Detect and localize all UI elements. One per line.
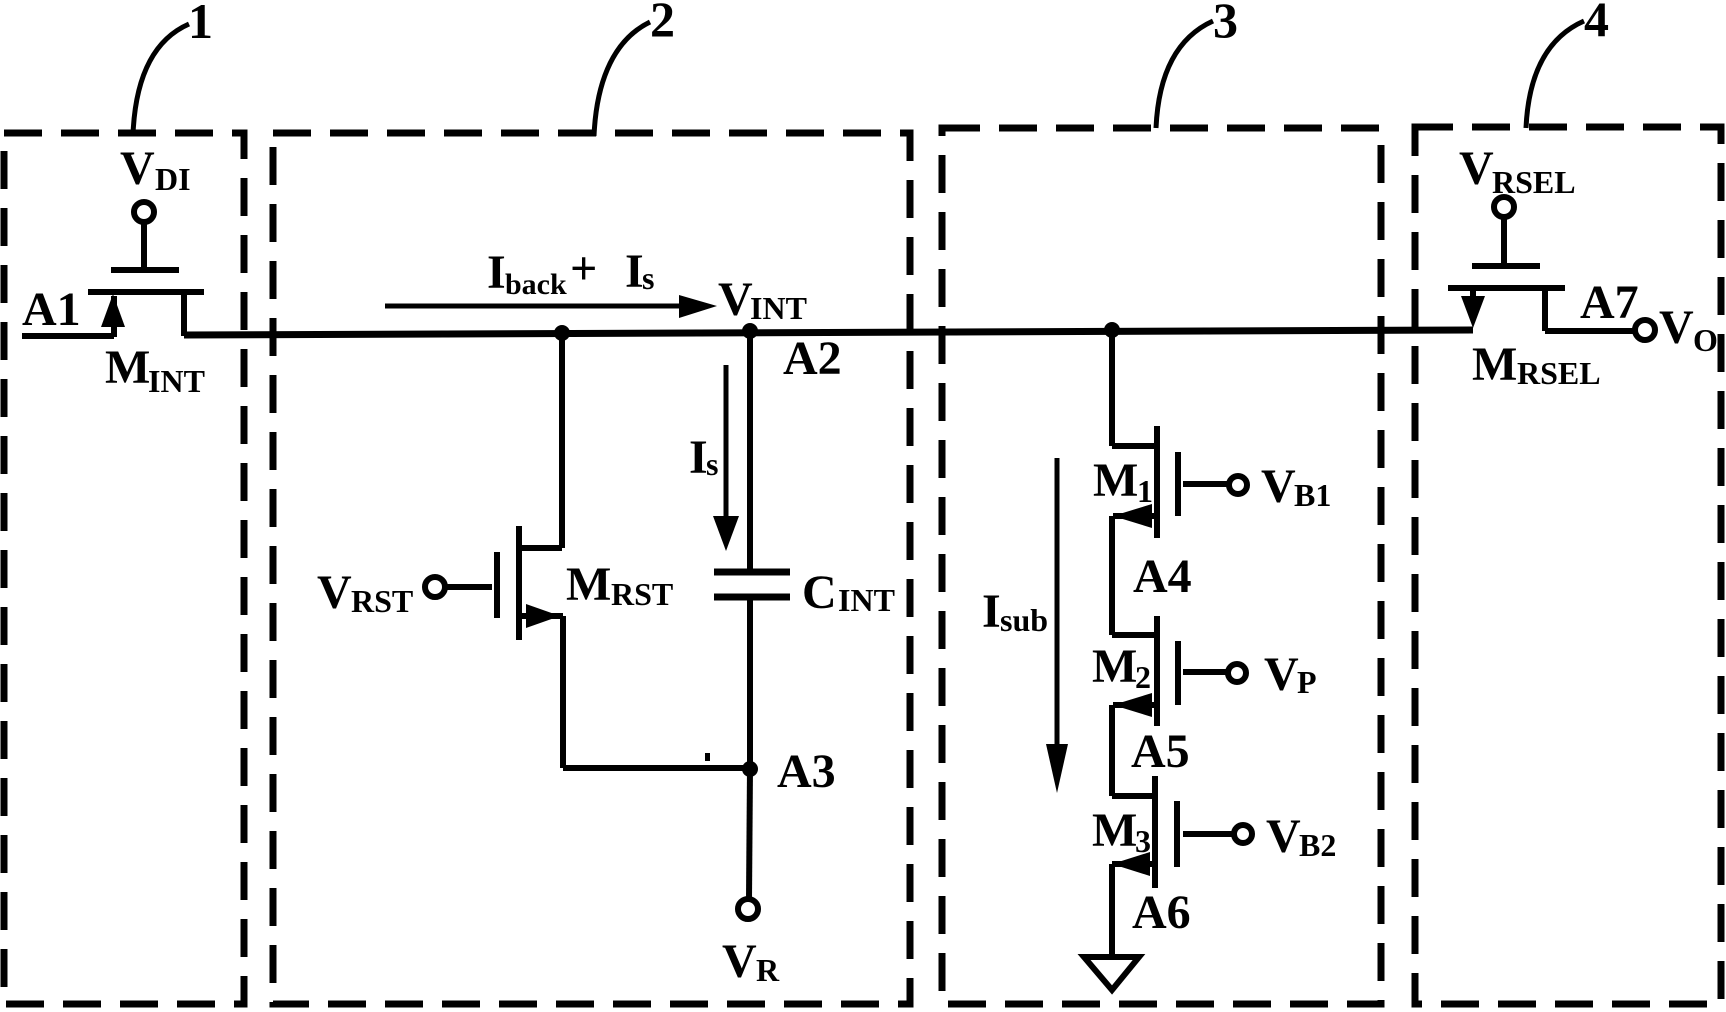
terminal V_RSEL [1494,197,1514,217]
transistor M3 source arrow [1112,852,1150,876]
leader line to label 1 [133,24,189,134]
svg-text:O: O [1693,322,1718,358]
transistor M2 source arrow [1113,693,1152,717]
transistor M3 gate plate [1174,801,1180,867]
svg-text:1: 1 [188,0,213,49]
transistor M2 drain horizontal [1112,632,1157,638]
wire M_RST source horizontal [519,613,563,619]
transistor M3 drain horizontal [1112,793,1155,799]
arrowhead I_sub [1046,744,1068,793]
svg-text:V: V [718,273,753,326]
svg-text:2: 2 [650,0,675,47]
svg-text:RSEL: RSEL [1492,164,1576,200]
terminal V_O [1635,320,1655,340]
svg-text:V: V [722,935,757,988]
svg-text:C: C [802,566,837,619]
capacitor C_INT bottom plate [714,594,790,601]
transistor M1 gate wire [1183,481,1229,487]
dashed box 4 (readout block) [1415,127,1721,1004]
svg-text:V: V [1261,460,1296,513]
svg-text:B2: B2 [1299,827,1336,863]
transistor M_INT source vertical leg [111,296,117,337]
leader line to label 2 [594,22,650,136]
stray mark above A3 wire [705,753,710,761]
svg-text:+: + [570,242,597,295]
svg-text:A2: A2 [783,332,842,385]
wire M1 source horizontal [1113,513,1157,519]
transistor M_RST channel [516,526,522,640]
capacitor C_INT top plate [714,569,790,576]
svg-text:A1: A1 [22,283,81,336]
svg-text:A3: A3 [777,745,836,798]
terminal V_B1 [1229,476,1247,494]
svg-text:M: M [105,341,150,394]
current arrow I_s shaft [724,365,729,520]
svg-text:M: M [1092,640,1137,693]
wire M2 source vertical node A5 [1109,705,1115,796]
wire M3 source horizontal [1112,861,1155,867]
svg-text:V: V [1459,142,1494,195]
transistor M1 gate plate [1175,452,1181,516]
wire M3 source vertical node A6 [1109,864,1115,956]
svg-text:V: V [120,142,155,195]
transistor M_RSEL source vertical leg [1470,288,1476,300]
current arrow I_sub shaft [1055,458,1060,748]
svg-text:I: I [487,246,506,299]
svg-text:3: 3 [1135,823,1151,859]
transistor M2 channel [1154,616,1160,726]
junction node at M_RST branch [554,325,570,341]
svg-text:A4: A4 [1133,550,1192,603]
svg-text:INT: INT [838,582,895,618]
svg-text:M: M [1093,454,1138,507]
arrowhead I_back [679,295,717,318]
terminal V_R [738,899,758,919]
current arrow I_back + I_s shaft [385,304,681,309]
junction node A2 / V_INT [742,323,758,339]
leader line to label 3 [1156,21,1213,128]
transistor M2 gate plate [1175,641,1181,705]
wire M_RST source vertical [560,616,566,768]
transistor M_INT gate terminal wire [141,222,147,270]
transistor M_RSEL gate plate [1472,263,1540,269]
svg-text:RST: RST [351,583,413,619]
svg-text:4: 4 [1584,0,1609,47]
junction node box3 branch [1104,322,1120,338]
capacitor C_INT bottom wire [747,597,753,768]
transistor M_RST gate wire [446,584,492,590]
svg-text:RSEL: RSEL [1517,355,1601,391]
transistor M_RST source arrow [526,604,560,628]
svg-text:INT: INT [148,363,205,399]
wire M_RST drain vertical [559,333,565,548]
svg-text:2: 2 [1135,659,1151,695]
svg-text:M: M [1092,804,1137,857]
main bus wire [184,330,1473,335]
leader line to label 4 [1526,21,1584,128]
transistor M_INT drain vertical leg [181,292,187,336]
transistor M_RSEL gate terminal wire [1501,217,1507,266]
svg-text:sub: sub [1000,602,1048,638]
wire A7 to V_O terminal [1545,328,1634,334]
wire A1 source horizontal [22,333,114,339]
dashed box 3 (subtraction block) [942,128,1381,1004]
svg-text:R: R [756,952,780,988]
terminal V_RST [425,577,445,597]
svg-text:A6: A6 [1132,886,1191,939]
svg-text:I: I [689,431,708,484]
svg-text:M: M [566,558,611,611]
transistor M_RSEL source arrow [1461,296,1485,328]
svg-text:B1: B1 [1294,477,1331,513]
transistor M_RST gate plate [494,552,500,618]
svg-text:s: s [706,446,718,482]
svg-text:I: I [625,245,644,298]
svg-text:P: P [1297,664,1317,700]
terminal V_B2 [1234,825,1252,843]
wire M2 source horizontal [1113,702,1157,708]
svg-text:A7: A7 [1580,276,1639,329]
wire box3 branch vertical [1109,330,1115,446]
svg-text:V: V [1264,648,1299,701]
svg-text:V: V [1659,301,1694,354]
transistor M_INT source arrow [101,294,125,327]
wire A3 horizontal [563,765,750,771]
transistor M3 gate wire [1183,831,1233,837]
svg-text:V: V [1266,810,1301,863]
wire A3 to V_R terminal [749,768,750,899]
transistor M1 source arrow [1113,504,1152,528]
capacitor C_INT top wire [747,332,753,572]
svg-text:3: 3 [1213,0,1238,48]
svg-text:1: 1 [1137,473,1153,509]
wire M_RST drain horizontal [519,545,562,551]
transistor M1 channel [1154,426,1160,538]
transistor M_INT channel [88,289,204,295]
transistor M1 drain horizontal [1112,443,1157,449]
dashed box 2 (integration block) [273,133,910,1004]
svg-text:s: s [642,260,654,296]
transistor M3 channel [1152,776,1158,888]
svg-text:I: I [982,585,1001,638]
svg-text:DI: DI [155,161,191,197]
wire M1 source vertical node A4 [1109,516,1115,635]
dashed box 1 (photodiode input block) [4,133,244,1004]
svg-text:A5: A5 [1131,725,1190,778]
transistor M_RSEL channel [1448,285,1565,291]
svg-text:M: M [1472,338,1517,391]
svg-text:RST: RST [611,576,673,612]
terminal V_P [1228,664,1246,682]
transistor M2 gate wire [1183,669,1228,675]
terminal V_DI [134,202,154,222]
transistor M_RSEL drain vertical leg [1542,288,1548,331]
arrowhead I_s [713,516,739,551]
ground symbol [1084,957,1139,990]
junction node A3 [742,761,758,777]
transistor M_INT gate plate [111,267,179,273]
svg-text:INT: INT [750,290,807,326]
svg-text:back: back [505,268,567,301]
svg-text:V: V [317,566,352,619]
